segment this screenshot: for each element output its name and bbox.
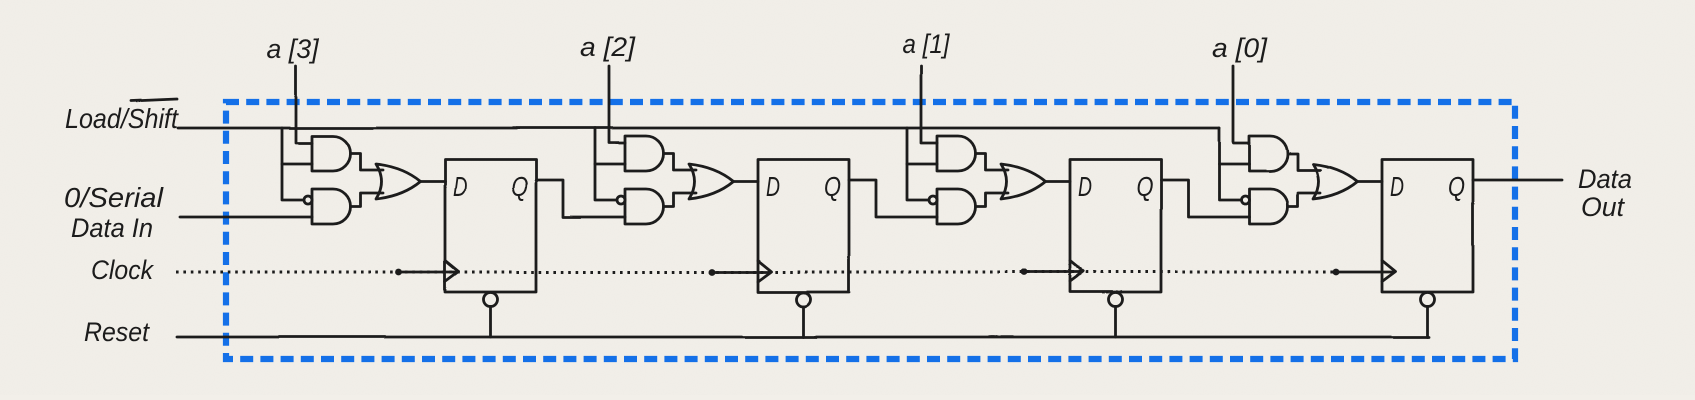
svg-text:Q: Q bbox=[511, 171, 528, 202]
svg-text:Q: Q bbox=[1136, 171, 1153, 202]
wire Load/Shift branch to AND U3A bbox=[907, 163, 937, 166]
reset bubble FF1 bbox=[484, 293, 498, 307]
reset bubble FF3 bbox=[1109, 293, 1123, 307]
OR gate U1C bbox=[376, 164, 421, 199]
svg-text:a [0]: a [0] bbox=[1212, 33, 1269, 63]
wire U4B output to OR U4C bbox=[1288, 193, 1321, 207]
inverter bubble on U2B input bbox=[617, 196, 625, 204]
clock input triangle FF2 bbox=[758, 261, 772, 282]
svg-text:D: D bbox=[1078, 171, 1092, 202]
inverter bubble on U3B input bbox=[929, 196, 937, 204]
clock junction dot stage 2 bbox=[709, 269, 716, 276]
wire U2A output to OR U2C bbox=[664, 154, 697, 171]
wire a[2] vertical into AND U2A bbox=[609, 66, 625, 143]
wire clock arrow into FF4 bbox=[1336, 271, 1394, 274]
svg-text:Data: Data bbox=[1578, 164, 1632, 194]
wire U2C output to D of FF2 bbox=[734, 180, 759, 183]
wire clock arrow into FF1 bbox=[399, 271, 457, 274]
AND gate U4A bbox=[1249, 136, 1288, 171]
svg-text:Q: Q bbox=[824, 171, 841, 202]
inverter bubble on U4B input bbox=[1241, 196, 1249, 204]
wire Reset bus bbox=[177, 336, 1429, 339]
D flip-flop FF2 bbox=[758, 160, 849, 293]
wire U4C output to D of FF4 bbox=[1358, 180, 1383, 183]
wire U2B output to OR U2C bbox=[664, 193, 697, 207]
OR gate U4C bbox=[1313, 164, 1358, 199]
AND gate U3B (inverted top input) bbox=[937, 189, 976, 224]
wire reset stem FF4 bbox=[1426, 307, 1429, 338]
wire Load/Shift drop stage 4 bbox=[1219, 128, 1241, 200]
wire a[0] vertical into AND U4A bbox=[1233, 66, 1249, 143]
clock input triangle FF3 bbox=[1070, 261, 1084, 282]
wire U3A output to OR U3C bbox=[976, 154, 1009, 171]
svg-text:D: D bbox=[453, 171, 467, 202]
OR gate U3C bbox=[1001, 164, 1046, 199]
clock input triangle FF4 bbox=[1382, 261, 1396, 282]
wire Load/Shift branch to AND U2A bbox=[595, 163, 625, 166]
svg-text:Data In: Data In bbox=[71, 213, 153, 243]
wire U4A output to OR U4C bbox=[1288, 154, 1321, 171]
wire Clock (dotted) bbox=[176, 271, 1336, 274]
module boundary (blue dashed box) bbox=[226, 102, 1515, 359]
svg-text:a [1]: a [1] bbox=[902, 29, 950, 59]
AND gate U2B (inverted top input) bbox=[625, 189, 664, 224]
wire Load/Shift branch to AND U4A bbox=[1219, 163, 1249, 166]
wire reset stem FF3 bbox=[1114, 307, 1117, 338]
wire clock arrow into FF3 bbox=[1024, 271, 1082, 274]
D flip-flop FF4 bbox=[1382, 160, 1473, 293]
overline over Shift bbox=[131, 99, 177, 101]
svg-text:a [2]: a [2] bbox=[580, 32, 637, 62]
wire Q of FF2 to stage 3 bbox=[849, 180, 937, 217]
inverter bubble on U1B input bbox=[304, 196, 312, 204]
reset bubble FF4 bbox=[1421, 293, 1435, 307]
wire U3B output to OR U3C bbox=[976, 193, 1009, 207]
reset bubble FF2 bbox=[797, 293, 811, 307]
wire a[3] vertical into AND U1A bbox=[296, 66, 312, 143]
svg-text:a [3]: a [3] bbox=[267, 34, 320, 64]
wire a[1] vertical into AND U3A bbox=[921, 66, 937, 143]
wire Q of FF3 to stage 4 bbox=[1161, 180, 1249, 217]
AND gate U1B (inverted top input) bbox=[312, 189, 351, 224]
wire Data Out bbox=[1473, 179, 1562, 182]
wire Load/Shift branch to AND U1A bbox=[282, 163, 312, 166]
D flip-flop FF1 bbox=[445, 160, 536, 293]
svg-text:D: D bbox=[766, 171, 780, 202]
wire reset stem FF1 bbox=[489, 307, 492, 338]
wire Load/Shift drop stage 2 bbox=[595, 128, 617, 200]
svg-text:D: D bbox=[1390, 171, 1404, 202]
svg-text:Load/Shift: Load/Shift bbox=[65, 103, 179, 134]
wire Load/Shift drop stage 3 bbox=[907, 128, 929, 200]
wire U1B output to OR U1C bbox=[351, 193, 384, 207]
wire Load/Shift drop stage 1 bbox=[282, 128, 304, 200]
svg-text:Q: Q bbox=[1448, 171, 1465, 202]
D flip-flop FF3 bbox=[1070, 160, 1161, 293]
wire Q of FF1 to stage 2 bbox=[536, 180, 625, 217]
clock junction dot stage 3 bbox=[1021, 269, 1028, 276]
svg-text:0/Serial: 0/Serial bbox=[64, 182, 164, 213]
wire U1A output to OR U1C bbox=[351, 154, 384, 171]
clock input triangle FF1 bbox=[445, 261, 459, 282]
AND gate U1A bbox=[312, 136, 351, 171]
wire 0/Serial Data In bbox=[180, 216, 312, 219]
AND gate U2A bbox=[625, 136, 664, 171]
wire U1C output to D of FF1 bbox=[421, 180, 446, 183]
OR gate U2C bbox=[689, 164, 734, 199]
svg-text:Out: Out bbox=[1581, 192, 1625, 222]
wire U3C output to D of FF3 bbox=[1046, 180, 1071, 183]
wire clock arrow into FF2 bbox=[712, 271, 770, 274]
clock junction dot stage 1 bbox=[396, 269, 403, 276]
wire Load/Shift bus bbox=[178, 127, 1219, 130]
wire reset stem FF2 bbox=[802, 307, 805, 338]
clock junction dot stage 4 bbox=[1333, 269, 1340, 276]
svg-text:Reset: Reset bbox=[84, 317, 150, 347]
AND gate U4B (inverted top input) bbox=[1249, 189, 1288, 224]
AND gate U3A bbox=[937, 136, 976, 171]
svg-text:Clock: Clock bbox=[91, 255, 154, 285]
